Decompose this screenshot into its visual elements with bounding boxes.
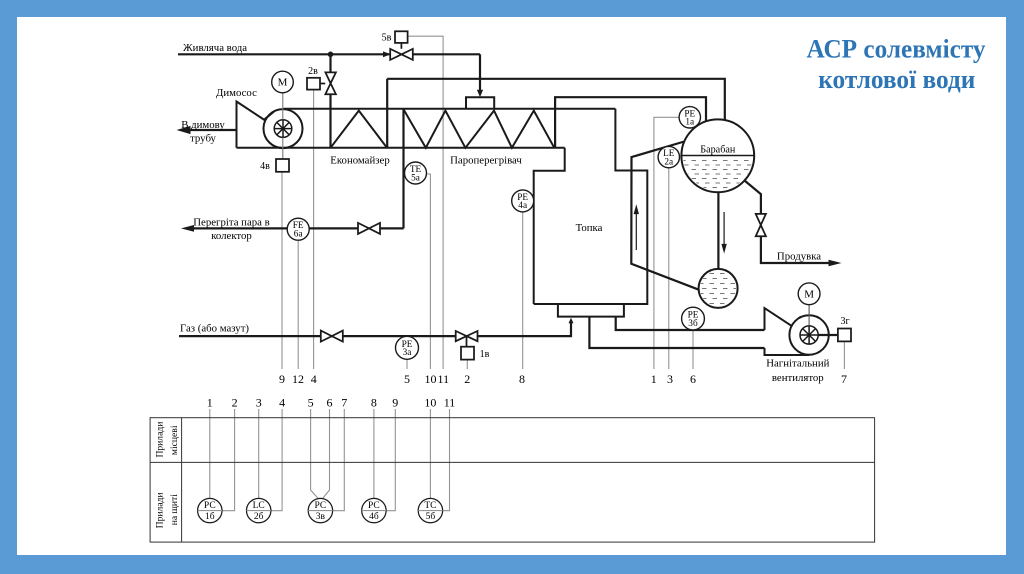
arrow gas into burner [569, 318, 574, 324]
burner step [558, 304, 624, 317]
superheater outlet down [402, 109, 404, 229]
svg-text:8: 8 [371, 395, 377, 409]
valve 1в body [456, 331, 467, 341]
svg-text:Барабан: Барабан [700, 145, 736, 156]
svg-text:3а: 3а [403, 348, 412, 358]
svg-text:РС: РС [315, 501, 327, 511]
expander water dashes [699, 274, 738, 304]
svg-text:10: 10 [425, 372, 437, 386]
signal 12 from FE 6a [297, 240, 299, 369]
steam valve body [358, 223, 369, 234]
damper 3г [838, 329, 851, 342]
fan2 outlet to damper 3г [818, 334, 838, 336]
svg-text:Нагнітальний: Нагнітальний [766, 358, 829, 370]
svg-text:4в: 4в [260, 161, 270, 172]
riser line expander to drum [631, 141, 699, 290]
instrument LE 2a [658, 146, 679, 167]
svg-text:АСР солевмісту: АСР солевмісту [807, 34, 986, 63]
instrument PE 3б [682, 307, 705, 330]
damper 4в [276, 159, 289, 172]
signal 6 from PE 3б [692, 330, 694, 369]
svg-text:3б: 3б [688, 318, 698, 329]
motor M2 [798, 283, 820, 305]
svg-text:4: 4 [311, 372, 317, 386]
feed water line [178, 53, 390, 55]
svg-text:6: 6 [327, 395, 333, 409]
svg-text:М: М [804, 288, 814, 300]
valve 2в actuator stem [320, 83, 325, 85]
air duct upper [616, 317, 765, 330]
instrument LC 2б [247, 498, 271, 522]
flue duct bottom [237, 147, 565, 149]
valve 5в body [390, 49, 401, 60]
table signal 6 [323, 409, 330, 499]
svg-text:3: 3 [667, 372, 673, 386]
panel instruments [198, 498, 443, 522]
svg-text:12: 12 [292, 372, 304, 386]
svg-text:3: 3 [256, 395, 262, 409]
drum [681, 119, 754, 192]
smoke exhauster housing [237, 102, 275, 148]
arrow to chimney [177, 126, 191, 134]
svg-text:місцеві: місцеві [169, 425, 180, 455]
flow arrow downcomer [723, 212, 725, 246]
svg-text:7: 7 [841, 372, 847, 386]
arrow feed before valve 5в [383, 51, 391, 57]
economizer outlet riser [386, 79, 388, 148]
table signal 5 [311, 409, 319, 499]
svg-text:LC: LC [253, 501, 265, 511]
blowdown valve body [756, 214, 766, 225]
frame left [0, 0, 17, 574]
table signal 4 [271, 409, 282, 511]
svg-text:2: 2 [464, 372, 470, 386]
economizer coil [331, 111, 388, 148]
instrument PC 3в [308, 498, 332, 522]
steam to collector line [380, 227, 404, 229]
smoke exhauster casing [264, 109, 303, 148]
table signal 7 [333, 409, 345, 511]
signal 8 from PE 4a [522, 212, 524, 369]
instrument PE 3a [396, 336, 419, 359]
drum to superheater line [555, 97, 706, 148]
svg-text:5а: 5а [411, 173, 420, 183]
svg-text:ТС: ТС [424, 501, 436, 511]
svg-text:Прилади: Прилади [155, 422, 166, 458]
svg-text:6а: 6а [294, 230, 303, 240]
table signal 10 [429, 409, 431, 498]
svg-text:9: 9 [392, 395, 398, 409]
table signal 2 [222, 409, 235, 511]
svg-text:5: 5 [404, 372, 410, 386]
svg-text:Димосос: Димосос [216, 87, 257, 99]
valve 5в actuator [395, 31, 408, 43]
fan 2 impeller [800, 326, 818, 344]
instrument TE 5a [405, 162, 427, 184]
svg-text:2в: 2в [308, 66, 318, 77]
svg-text:Живляча вода: Живляча вода [183, 42, 247, 54]
signal 11 from valve 5в [408, 36, 444, 369]
chord LC 2б [247, 510, 271, 512]
signal 7 from damper 3г [843, 341, 845, 369]
svg-text:трубу: трубу [190, 133, 216, 145]
frame top [0, 0, 1024, 17]
svg-text:9: 9 [279, 372, 285, 386]
chord PC 1б [198, 510, 222, 512]
svg-text:5в: 5в [382, 33, 392, 44]
signal M motor through fan 1 to damper 4в [282, 93, 284, 120]
svg-text:1: 1 [651, 372, 657, 386]
svg-text:колектор: колектор [211, 230, 252, 242]
svg-text:Топка: Топка [576, 222, 603, 234]
feed branch down to economizer [329, 54, 331, 72]
svg-text:1б: 1б [205, 511, 215, 522]
signal 2 from valve 1в [466, 360, 468, 369]
svg-text:котлової води: котлової води [818, 65, 975, 94]
furnace outline [534, 148, 565, 304]
svg-text:РС: РС [204, 501, 216, 511]
economizer to drum line [387, 79, 725, 121]
junction feed water [328, 52, 334, 58]
motor M1 [272, 71, 294, 93]
signal 4 from valve 2в [313, 90, 315, 369]
svg-text:вентилятор: вентилятор [772, 372, 824, 384]
table signal 8 [373, 409, 375, 498]
svg-text:5б: 5б [426, 511, 436, 522]
svg-text:Перегріта пара в: Перегріта пара в [193, 217, 270, 229]
svg-text:М: М [278, 77, 288, 89]
svg-text:Пароперегрівач: Пароперегрівач [450, 155, 522, 167]
valve 2в actuator [307, 78, 320, 90]
chord PC 3в [308, 510, 332, 512]
frame bottom [0, 555, 1024, 574]
downcomer drum to expander [717, 191, 719, 269]
flow arrow riser up [634, 207, 726, 252]
valve 2в body [325, 72, 336, 83]
instrument PE 1a [679, 107, 700, 128]
instrument TC 5б [418, 498, 442, 522]
table signal 1 [209, 409, 211, 498]
svg-text:2б: 2б [254, 511, 264, 522]
svg-text:Економайзер: Економайзер [330, 155, 389, 167]
svg-text:2: 2 [232, 395, 238, 409]
valve 1в actuator stem [466, 336, 468, 347]
svg-text:11: 11 [444, 395, 456, 409]
svg-text:3г: 3г [840, 316, 849, 327]
svg-text:11: 11 [438, 372, 450, 386]
svg-text:5: 5 [308, 395, 314, 409]
svg-text:на щиті: на щиті [169, 494, 180, 526]
svg-text:1а: 1а [685, 118, 694, 128]
svg-text:4б: 4б [369, 511, 379, 522]
svg-text:3в: 3в [316, 512, 326, 522]
svg-text:1в: 1в [480, 349, 490, 360]
svg-text:Продувка: Продувка [777, 251, 821, 263]
svg-text:6: 6 [690, 372, 696, 386]
table signal 11 [443, 409, 450, 511]
table signal 3 [258, 409, 260, 498]
spray header box [466, 97, 494, 109]
svg-text:7: 7 [341, 395, 347, 409]
smoke exhauster impeller [274, 120, 292, 138]
superheater coil [404, 110, 554, 148]
drum water dashes [681, 161, 755, 188]
svg-text:РС: РС [368, 501, 380, 511]
signal 10 from TE 5a [427, 174, 431, 369]
valve 1в actuator [461, 347, 474, 360]
svg-text:В димову: В димову [181, 119, 225, 131]
fan 2 housing [765, 308, 801, 330]
svg-text:2а: 2а [664, 157, 673, 167]
air duct lower [589, 317, 764, 348]
fan 2 casing [789, 315, 828, 354]
svg-text:Прилади: Прилади [155, 492, 166, 528]
gas line [179, 323, 571, 337]
arrow to collector [181, 225, 194, 232]
svg-text:4: 4 [279, 395, 285, 409]
instrument PC 4б [362, 498, 386, 522]
svg-text:4а: 4а [518, 201, 527, 211]
expander vessel [699, 269, 738, 308]
signal 3 from LE 2a [668, 168, 670, 369]
svg-text:Газ (або мазут): Газ (або мазут) [180, 323, 249, 335]
instrument FE 6a [287, 218, 309, 240]
table signal 9 [386, 409, 395, 511]
gas valve body [321, 331, 332, 342]
legend table [150, 418, 875, 542]
arrow blowdown [829, 260, 842, 267]
svg-text:1: 1 [207, 395, 213, 409]
svg-text:8: 8 [519, 372, 525, 386]
flue duct to chimney [187, 129, 237, 131]
valve 5в actuator stem [400, 43, 402, 49]
flue duct top [283, 108, 615, 110]
signal 1 from PE 1a [654, 117, 679, 369]
svg-text:10: 10 [424, 395, 436, 409]
spray branch down to header [479, 54, 481, 91]
arrow spray into header [477, 90, 483, 98]
frame right [1006, 0, 1024, 574]
signal M motor shaft fan 2 [808, 305, 810, 326]
chord PC 4б [362, 510, 386, 512]
instrument PC 1б [198, 498, 222, 522]
signal 9 from damper 4в [281, 172, 283, 369]
chord TC 5б [418, 510, 442, 512]
instrument PE 4a [512, 190, 534, 212]
blowdown line [745, 181, 761, 214]
signal 5 from PE 3a [406, 359, 408, 369]
drum water level [682, 155, 755, 157]
